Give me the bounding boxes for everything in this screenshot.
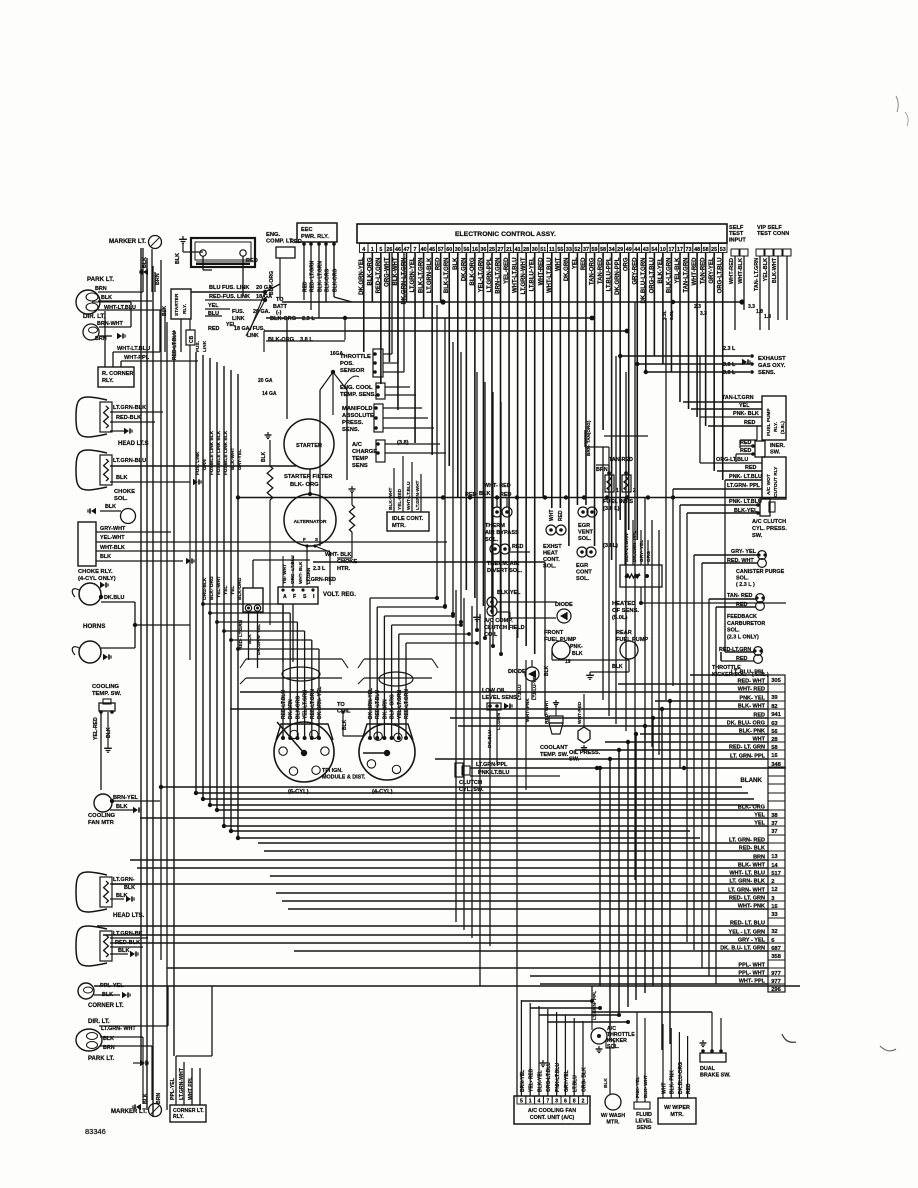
svg-text:BLK: BLK (603, 1078, 609, 1088)
svg-text:44: 44 (634, 247, 640, 253)
svg-text:RED: RED (512, 544, 523, 550)
ground (103, 654, 108, 660)
svg-text:3.8 L: 3.8 L (723, 362, 736, 368)
svg-text:7: 7 (546, 1099, 549, 1105)
svg-text:RED: RED (558, 510, 564, 521)
svg-text:47: 47 (404, 247, 410, 253)
svg-text:MODULE & DIST.: MODULE & DIST. (322, 775, 366, 781)
ground (193, 479, 198, 485)
svg-text:BLK: BLK (116, 893, 128, 899)
svg-text:EXHST: EXHST (543, 544, 562, 550)
starter relay (171, 289, 191, 319)
wire (393, 468, 395, 512)
svg-text:A/C: A/C (352, 442, 363, 448)
svg-text:(3.8L): (3.8L) (780, 421, 786, 434)
ground (267, 432, 269, 435)
wire (709, 598, 756, 600)
svg-text:YEL: YEL (208, 303, 219, 309)
wire (385, 443, 440, 445)
wire (552, 659, 629, 661)
svg-text:LT.GRN-WHT: LT.GRN-WHT (415, 480, 421, 510)
svg-text:28: 28 (523, 247, 529, 253)
ground (126, 896, 131, 902)
choke relay CHOKE RLY 4-CYL ONLY (78, 522, 96, 566)
svg-text:LT.GRN-BK: LT.GRN-BK (113, 931, 143, 937)
svg-text:TEMP. SW.: TEMP. SW. (92, 691, 122, 697)
svg-text:ENG. COOL: ENG. COOL (340, 385, 373, 391)
svg-text:BLK: BLK (100, 554, 111, 560)
svg-text:32: 32 (771, 929, 777, 935)
svg-text:WHT PPL: WHT PPL (188, 1076, 194, 1100)
svg-text:WHT-LT.BLU: WHT-LT.BLU (117, 346, 150, 352)
wire (286, 318, 288, 419)
svg-text:RED: RED (246, 258, 258, 264)
svg-text:GRY-WHT: GRY-WHT (100, 526, 126, 532)
svg-text:(6-CYL): (6-CYL) (288, 789, 309, 795)
svg-text:3: 3 (555, 1099, 558, 1105)
svg-text:BLK: BLK (116, 804, 128, 810)
svg-text:3.3L: 3.3L (662, 310, 668, 320)
svg-text:BRN-YEL: BRN-YEL (113, 795, 138, 801)
svg-text:4: 4 (362, 247, 365, 253)
svg-text:BLK: BLK (162, 305, 168, 316)
svg-text:TEMP. SW.: TEMP. SW. (540, 752, 569, 758)
head lights lower (76, 872, 107, 912)
wire (99, 1025, 168, 1027)
svg-text:BRN: BRN (596, 467, 608, 473)
svg-text:INPUT: INPUT (729, 237, 746, 243)
svg-text:BLU FUS. LINK: BLU FUS. LINK (209, 285, 249, 291)
svg-text:WHT: WHT (661, 1083, 667, 1094)
svg-text:43: 43 (643, 247, 649, 253)
ground (542, 1060, 544, 1063)
svg-text:73: 73 (686, 247, 692, 253)
svg-text:(4-CYL ONLY): (4-CYL ONLY) (78, 576, 116, 582)
svg-text:FUSIBLE LINK BLK: FUSIBLE LINK BLK (216, 430, 222, 475)
svg-text:YEL-LT.GRN: YEL-LT.GRN (303, 690, 309, 719)
wire (725, 651, 754, 653)
svg-text:FUEL PUMP: FUEL PUMP (544, 637, 576, 643)
svg-text:PNK- LT.BLU: PNK- LT.BLU (729, 474, 762, 480)
svg-text:BLK- PNK: BLK- PNK (670, 1070, 676, 1094)
svg-text:FUS.: FUS. (232, 309, 245, 315)
svg-text:WHT-RED: WHT-RED (577, 701, 583, 724)
svg-text:RLY.: RLY. (102, 378, 114, 384)
wire (182, 243, 184, 252)
svg-text:EGR: EGR (576, 563, 588, 569)
svg-text:GAS OXY.: GAS OXY. (758, 363, 786, 369)
wire staircase feeds left connector (203, 603, 283, 605)
svg-text:1.8: 1.8 (764, 314, 771, 320)
wire staircase feeds right connector (370, 597, 437, 599)
svg-text:BLK-WHT: BLK-WHT (388, 488, 394, 510)
svg-text:FUS. LINK: FUS. LINK (195, 451, 201, 475)
svg-text:DIVERT SOL.: DIVERT SOL. (487, 568, 523, 574)
svg-text:A/C CLUTCH: A/C CLUTCH (752, 519, 786, 525)
svg-text:56: 56 (463, 247, 469, 253)
wire staircase lower-left (609, 759, 611, 1040)
wire deep verticals left half (455, 590, 457, 922)
svg-text:RED-FUS. LINK: RED-FUS. LINK (209, 294, 250, 300)
svg-text:37: 37 (583, 247, 589, 253)
svg-text:HTR.: HTR. (337, 566, 350, 572)
svg-text:55: 55 (557, 247, 563, 253)
svg-text:DIR. LT.: DIR. LT. (88, 1019, 110, 1025)
wire (302, 242, 306, 246)
svg-text:33: 33 (771, 912, 778, 918)
wire (700, 462, 762, 464)
svg-text:TO: TO (337, 702, 345, 708)
ground (124, 428, 129, 434)
svg-text:58: 58 (703, 247, 709, 253)
svg-text:A: A (283, 594, 287, 600)
svg-text:THERM. AIR: THERM. AIR (487, 561, 519, 567)
svg-text:YEL- RED: YEL- RED (529, 1068, 535, 1092)
svg-text:LT.GRN-: LT.GRN- (113, 877, 135, 883)
wire (510, 551, 530, 553)
choke heater (351, 486, 353, 489)
svg-text:WHT- BLK: WHT- BLK (325, 552, 351, 558)
svg-text:GRY-YEL: GRY-YEL (237, 449, 243, 470)
svg-text:MARKER LT.: MARKER LT. (109, 238, 146, 245)
svg-text:(4-CYL): (4-CYL) (372, 789, 393, 795)
svg-text:(2.3 L ONLY): (2.3 L ONLY) (727, 634, 759, 640)
head lights upper (76, 397, 107, 437)
svg-text:26: 26 (386, 247, 392, 253)
svg-text:TAN- RED: TAN- RED (727, 593, 752, 599)
svg-text:RED-LT.BLU: RED-LT.BLU (172, 331, 178, 360)
svg-text:RED- LT.GRN: RED- LT.GRN (238, 619, 244, 650)
windshield wiper motor (658, 1098, 696, 1124)
svg-text:FEEDBACK: FEEDBACK (727, 614, 757, 620)
svg-text:SENS.: SENS. (342, 427, 360, 433)
ECU pin number row (360, 244, 369, 253)
svg-text:MTR.: MTR. (606, 1120, 620, 1126)
wire (683, 401, 762, 403)
EEC power relay (297, 223, 337, 242)
ground (122, 992, 127, 998)
svg-text:SOL.: SOL. (578, 536, 591, 542)
svg-text:ALTERNATOR: ALTERNATOR (294, 519, 327, 525)
svg-text:3.8 L: 3.8 L (300, 337, 313, 343)
svg-text:VIP SELF: VIP SELF (757, 225, 782, 231)
wire (385, 386, 410, 388)
svg-text:296: 296 (771, 987, 781, 993)
svg-text:YEL-RED: YEL-RED (93, 717, 99, 740)
svg-text:GRY- YEL: GRY- YEL (639, 540, 645, 562)
svg-text:LT.GRN: LT.GRN (306, 567, 311, 584)
svg-text:CYL. PRESS.: CYL. PRESS. (752, 526, 787, 532)
battery (191, 238, 255, 267)
svg-text:MARKER LT.: MARKER LT. (111, 1109, 147, 1115)
svg-text:1: 1 (529, 1099, 532, 1105)
wire (191, 291, 265, 293)
svg-text:BLK: BLK (175, 253, 181, 264)
svg-text:YEL-WHT: YEL-WHT (216, 576, 222, 598)
alternator output connector (243, 588, 263, 612)
svg-text:1.8: 1.8 (756, 309, 763, 315)
wire (583, 694, 585, 710)
ground (91, 508, 96, 514)
wire (680, 504, 758, 506)
svg-text:4: 4 (538, 1099, 541, 1105)
svg-text:SENSOR: SENSOR (340, 368, 365, 374)
svg-text:SELF: SELF (729, 225, 744, 231)
svg-text:RLY.: RLY. (173, 1114, 184, 1120)
svg-text:BRN-WHT: BRN-WHT (97, 321, 123, 327)
svg-text:VENT: VENT (578, 530, 594, 536)
wire (98, 291, 143, 293)
svg-text:MTR.: MTR. (392, 523, 406, 529)
svg-text:BLK: BLK (612, 664, 623, 670)
wire (609, 1048, 611, 1094)
svg-text:YEL: YEL (223, 586, 229, 595)
svg-text:CLUTCH: CLUTCH (459, 780, 482, 786)
wire (383, 353, 392, 355)
TFI distributor 6-cyl (276, 724, 333, 740)
svg-text:RED-BLK: RED-BLK (116, 415, 141, 421)
svg-text:INER.: INER. (770, 443, 785, 449)
wire (279, 258, 281, 300)
wire (99, 326, 131, 328)
svg-text:TAN- LT.GRN: TAN- LT.GRN (754, 258, 760, 291)
svg-text:CHOKE: CHOKE (114, 489, 135, 495)
svg-text:DIR. LT.: DIR. LT. (83, 313, 106, 320)
wire (496, 498, 498, 507)
svg-text:FUS.: FUS. (195, 341, 201, 352)
ground (702, 1040, 704, 1043)
wire bus corner dots (194, 791, 198, 795)
svg-text:PNK-: PNK- (570, 644, 583, 650)
svg-text:TAN-LT.GRN: TAN-LT.GRN (722, 395, 754, 401)
svg-text:BLK: BLK (124, 885, 135, 891)
svg-text:BLK-ORG: BLK-ORG (268, 337, 294, 343)
clutch cylinder switch (455, 763, 463, 777)
wire (282, 556, 284, 587)
svg-text:2.3: 2.3 (694, 304, 701, 310)
svg-text:2.3 L: 2.3 L (302, 316, 315, 322)
svg-text:BLK: BLK (106, 727, 112, 738)
svg-text:TFI IGN.: TFI IGN. (322, 768, 343, 774)
wire (110, 800, 160, 802)
svg-text:BLK-WHT: BLK-WHT (772, 257, 778, 283)
svg-text:48: 48 (694, 247, 700, 253)
svg-text:PWR. RLY.: PWR. RLY. (301, 234, 329, 240)
svg-text:ABSOLUTE: ABSOLUTE (342, 413, 374, 419)
svg-text:SW.: SW. (770, 450, 781, 456)
svg-text:5: 5 (520, 1099, 523, 1105)
wire (497, 611, 510, 613)
connector row left (246, 658, 342, 660)
svg-text:52: 52 (574, 247, 580, 253)
svg-text:RED-LT.BLU: RED-LT.BLU (281, 690, 287, 719)
connector ellipse left (282, 667, 320, 681)
svg-text:ORG-BLK: ORG-BLK (202, 577, 208, 600)
svg-text:HEAD LT.S: HEAD LT.S (118, 441, 149, 447)
svg-text:RED-LT.GRN: RED-LT.GRN (404, 689, 410, 719)
wire (497, 601, 557, 603)
ground (107, 745, 109, 748)
svg-text:7: 7 (414, 247, 417, 253)
svg-text:ORG: ORG (646, 551, 652, 562)
ground (589, 672, 591, 675)
ground (130, 951, 135, 957)
svg-text:THERM: THERM (485, 523, 505, 529)
svg-text:5: 5 (379, 247, 382, 253)
svg-text:RED: RED (302, 281, 308, 292)
svg-text:LT.BLU: LT.BLU (573, 1075, 579, 1092)
circuit breaker CB (186, 330, 195, 345)
wire (520, 1000, 522, 1096)
svg-text:W/ WASH: W/ WASH (601, 1113, 625, 1119)
terminal column ladder (768, 675, 785, 992)
svg-text:SOL.: SOL. (114, 496, 128, 502)
svg-text:SENS.: SENS. (758, 370, 776, 376)
svg-text:CARBURETOR: CARBURETOR (727, 621, 765, 627)
svg-text:DK.BLU: DK.BLU (104, 595, 124, 601)
svg-text:LT.GRN-PPL: LT.GRN-PPL (476, 762, 508, 768)
svg-text:COMP. LT.: COMP. LT. (266, 239, 294, 245)
svg-text:S: S (303, 594, 307, 600)
svg-text:WHT-BLK: WHT-BLK (738, 258, 744, 284)
svg-text:FUEL INJ.S: FUEL INJ.S (603, 499, 633, 505)
svg-text:AIR BYPASS: AIR BYPASS (485, 530, 519, 536)
svg-text:16: 16 (771, 753, 778, 759)
svg-text:IDLE CONT.: IDLE CONT. (392, 516, 424, 522)
svg-text:LEVEL SENS.: LEVEL SENS. (482, 695, 519, 701)
windshield washer motor (605, 1094, 621, 1110)
wire (383, 407, 422, 409)
svg-text:RED: RED (744, 420, 755, 426)
svg-text:25: 25 (711, 247, 717, 253)
svg-text:DK.BLU-ORG: DK.BLU-ORG (678, 1062, 684, 1094)
svg-text:60: 60 (446, 247, 452, 253)
svg-text:SOL.: SOL. (727, 628, 740, 634)
svg-text:BRAKE SW.: BRAKE SW. (700, 1073, 731, 1079)
svg-text:941: 941 (771, 712, 781, 718)
svg-text:RED: RED (686, 1083, 692, 1094)
svg-text:11: 11 (549, 247, 555, 253)
svg-text:RLY.: RLY. (182, 304, 188, 314)
wire (331, 370, 335, 374)
svg-text:RED-LT.BLU: RED-LT.BLU (375, 690, 381, 719)
svg-text:FAN MTR: FAN MTR (88, 820, 115, 826)
wire (142, 1095, 144, 1104)
cooling fan motor (94, 794, 112, 812)
svg-text:TEST: TEST (729, 231, 744, 237)
bus wires (160, 786, 742, 788)
svg-text:CANISTER PURGE: CANISTER PURGE (736, 569, 785, 575)
svg-text:YEL-RED: YEL-RED (397, 488, 403, 510)
wire (496, 710, 498, 764)
EGR vent solenoid (578, 507, 588, 517)
svg-text:3.8L: 3.8L (669, 310, 675, 320)
wire (110, 430, 124, 432)
wire (711, 1012, 713, 1051)
svg-text:(3.8 L): (3.8 L) (603, 506, 620, 512)
svg-text:BLK-ORG: BLK-ORG (295, 696, 301, 719)
ground (140, 1060, 145, 1066)
svg-text:PARK LT.: PARK LT. (88, 1056, 114, 1062)
svg-text:PARK LT.: PARK LT. (87, 276, 114, 283)
svg-text:STARTER: STARTER (296, 443, 322, 449)
svg-text:(5.0L): (5.0L) (612, 615, 628, 621)
svg-text:17: 17 (668, 247, 674, 253)
svg-text:CUTOUT RLY: CUTOUT RLY (773, 466, 779, 497)
alternator (284, 494, 336, 546)
svg-text:1: 1 (371, 247, 374, 253)
svg-text:57: 57 (438, 247, 444, 253)
idle control motor (387, 512, 429, 531)
connector ellipse right (379, 672, 413, 686)
wire (342, 712, 344, 736)
svg-text:29: 29 (617, 247, 623, 253)
svg-text:BLK-WHT: BLK-WHT (230, 448, 236, 470)
svg-text:ORG-LT.BLU: ORG-LT.BLU (546, 1062, 552, 1092)
wire (104, 311, 106, 367)
svg-text:DUAL: DUAL (700, 1066, 716, 1072)
wire (624, 497, 626, 565)
wire (531, 660, 533, 667)
svg-text:13: 13 (771, 854, 778, 860)
svg-text:ELECTRONIC CONTROL ASSY.: ELECTRONIC CONTROL ASSY. (455, 231, 556, 238)
svg-text:SOL.: SOL. (485, 537, 498, 543)
svg-text:2.3 L: 2.3 L (723, 346, 736, 352)
svg-text:RED: RED (500, 492, 511, 498)
svg-text:BRN- TAN(ORG): BRN- TAN(ORG) (586, 420, 591, 456)
svg-text:BLK: BLK (116, 475, 128, 481)
svg-text:VOLT. REG.: VOLT. REG. (323, 592, 356, 598)
wire (470, 767, 786, 769)
svg-text:A/C COMP.: A/C COMP. (484, 618, 513, 624)
svg-text:305: 305 (771, 678, 781, 684)
svg-text:14 GA: 14 GA (262, 391, 277, 397)
svg-text:45: 45 (429, 247, 435, 253)
AC cooling fan controller (514, 1096, 590, 1124)
svg-text:3.8 L: 3.8 L (723, 370, 736, 376)
svg-text:RED: RED (208, 326, 219, 332)
svg-text:A/C COOLING FAN: A/C COOLING FAN (528, 1108, 576, 1114)
svg-text:17: 17 (677, 247, 683, 253)
svg-text:W/ WIPER: W/ WIPER (664, 1105, 690, 1111)
ECU box ELECTRONIC CONTROL ASSY (357, 224, 727, 243)
svg-text:RED: RED (745, 465, 756, 471)
svg-text:PNK-LT.BLU: PNK-LT.BLU (555, 1063, 561, 1092)
svg-text:RED-LT.GRN: RED-LT.GRN (310, 689, 316, 719)
TFI distributor 4-cyl (362, 724, 413, 740)
ground (476, 614, 478, 617)
svg-text:41: 41 (515, 247, 521, 253)
wire (94, 985, 800, 987)
starter motor (284, 419, 334, 469)
ground (186, 558, 191, 564)
svg-text:FUEL PUMP: FUEL PUMP (766, 408, 772, 436)
svg-text:YEL: YEL (230, 586, 236, 595)
svg-text:A/C WOT: A/C WOT (766, 474, 772, 495)
svg-text:30: 30 (455, 247, 461, 253)
svg-text:8: 8 (573, 1099, 576, 1105)
svg-text:BRN-YEL: BRN-YEL (520, 1070, 526, 1092)
dual brake switch (700, 1053, 726, 1062)
svg-text:ENG.: ENG. (266, 232, 281, 238)
svg-text:COOLING: COOLING (92, 684, 120, 690)
ground (100, 582, 105, 588)
ground (136, 1104, 141, 1110)
wire (620, 355, 750, 357)
svg-text:POS.: POS. (340, 361, 354, 367)
svg-text:LEVEL: LEVEL (635, 1119, 653, 1125)
svg-text:COOLANT: COOLANT (540, 745, 568, 751)
